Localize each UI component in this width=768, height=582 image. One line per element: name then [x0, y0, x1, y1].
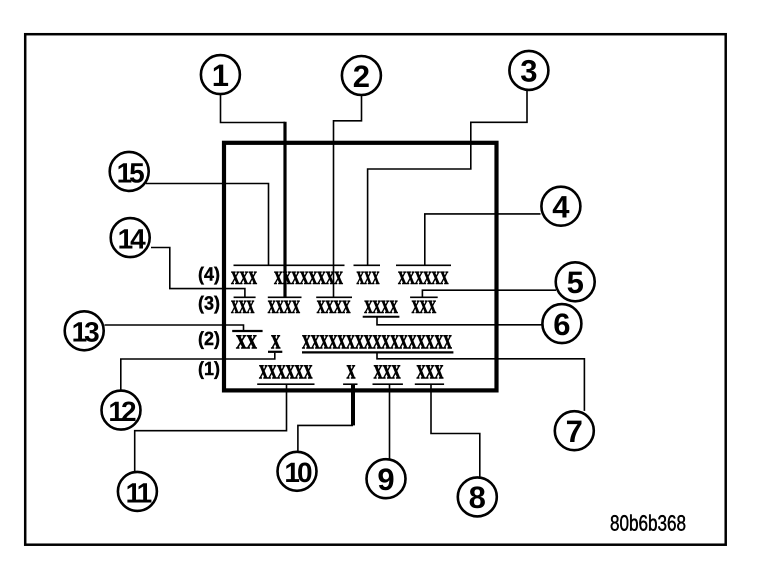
callout circle 1 — [201, 55, 240, 94]
leader 8 — [431, 384, 480, 477]
leader 10 thick drop — [351, 384, 355, 425]
svg-text:xxxx: xxxx — [364, 289, 398, 319]
leader 2 — [334, 96, 362, 298]
leader 9 — [389, 384, 391, 459]
svg-text:xxxxxx: xxxxxx — [398, 260, 449, 290]
leader 6 — [377, 317, 542, 325]
svg-text:xxxxxxxx: xxxxxxxx — [274, 260, 343, 290]
svg-text:6: 6 — [553, 307, 570, 342]
callout circle 10 — [278, 452, 317, 491]
leader 14 — [151, 248, 245, 298]
leader 12 — [121, 353, 275, 390]
callout circle 13 — [65, 311, 104, 350]
row 4 group4 overline — [396, 264, 451, 266]
svg-text:13: 13 — [72, 317, 100, 348]
svg-text:(3): (3) — [198, 294, 220, 315]
svg-text:1: 1 — [212, 58, 229, 93]
svg-text:14: 14 — [118, 224, 147, 255]
leader 11 — [135, 384, 287, 471]
svg-text:7: 7 — [566, 414, 583, 449]
callout circle 2 — [342, 56, 381, 95]
callout circle 9 — [367, 459, 406, 498]
svg-text:x: x — [347, 354, 356, 386]
leader 3 — [368, 91, 527, 266]
svg-text:11: 11 — [126, 477, 152, 508]
callout circle 14 — [111, 218, 150, 257]
callout circle 7 — [555, 411, 594, 450]
svg-text:12: 12 — [108, 396, 136, 427]
callout circle 15 — [110, 152, 149, 191]
svg-text:2: 2 — [353, 59, 370, 94]
svg-text:8: 8 — [469, 480, 486, 515]
svg-text:xxxx: xxxx — [268, 289, 300, 319]
svg-text:xxx: xxx — [231, 289, 255, 319]
callout circle 5 — [556, 262, 595, 301]
svg-text:4: 4 — [552, 190, 570, 225]
leader 1 thin part — [221, 95, 286, 123]
svg-text:3: 3 — [520, 54, 537, 89]
svg-text:(2): (2) — [198, 329, 220, 350]
svg-text:xxxx: xxxx — [317, 289, 351, 319]
svg-text:15: 15 — [117, 157, 145, 188]
leader 5 — [422, 290, 556, 297]
leader 7 — [377, 352, 584, 411]
callout circle 8 — [458, 477, 497, 516]
svg-text:xxx: xxx — [412, 289, 437, 319]
callout circle 6 — [542, 304, 581, 343]
leader 13 — [105, 325, 244, 330]
svg-text:(1): (1) — [198, 359, 220, 380]
row 2 group3 underline — [302, 351, 453, 353]
leader 15 — [146, 184, 269, 266]
svg-text:xxxxxx: xxxxxx — [259, 354, 313, 386]
leader 10 thin part — [298, 425, 353, 451]
svg-text:xxx: xxx — [374, 354, 401, 386]
svg-text:xx: xx — [236, 324, 257, 356]
svg-text:(4): (4) — [198, 265, 220, 286]
svg-text:10: 10 — [284, 457, 312, 488]
svg-text:5: 5 — [567, 265, 584, 300]
row 4 long overline — [234, 264, 345, 266]
svg-text:80b6b368: 80b6b368 — [610, 511, 686, 536]
svg-text:xxxxxxxxxxxxxxxxx: xxxxxxxxxxxxxxxxx — [302, 324, 452, 356]
row 1 underlines — [257, 383, 314, 385]
callout circle 11 — [118, 472, 157, 511]
leader 4 — [425, 214, 541, 265]
svg-text:xxx: xxx — [357, 260, 380, 290]
svg-text:xxx: xxx — [231, 260, 257, 290]
row 3 overlines — [234, 296, 256, 298]
callout circle 3 — [509, 51, 548, 90]
row 4 group3 overline — [354, 264, 381, 266]
callout circle 12 — [102, 391, 141, 430]
svg-text:xxx: xxx — [417, 354, 444, 386]
svg-text:9: 9 — [377, 462, 394, 497]
label plate box — [224, 143, 497, 391]
row 2 group2 underline — [268, 351, 282, 353]
callout circle 4 — [541, 187, 580, 226]
row 2 group1 overline — [232, 330, 262, 332]
leader 1 thick drop — [283, 122, 286, 298]
row 3 group4 underline — [363, 316, 400, 318]
